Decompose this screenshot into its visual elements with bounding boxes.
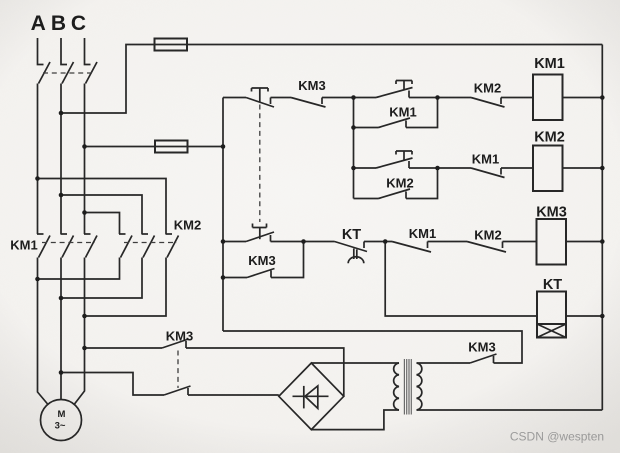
wire rung2 b (501, 167, 533, 169)
wire KM3 contact up to left bus bottom (223, 331, 522, 363)
wire KM1 pole2 to motor (60, 258, 62, 400)
wire KM1 pole1 to motor (38, 258, 49, 405)
wire branch vertical rung1-2 (353, 98, 355, 199)
contact KM2 NC rung3 (467, 242, 506, 253)
wire rung4 end (566, 315, 602, 317)
wire rung2 a (409, 167, 471, 169)
coil KM3 (536, 205, 567, 265)
wire brake upper to bridge right vertex (186, 348, 344, 396)
wire rung3 start (223, 241, 246, 243)
fuse FU1 (155, 39, 188, 51)
wire B to fuse FU1 (61, 45, 155, 114)
transformer T primary winding (394, 363, 399, 410)
wire brake tap upper from C pole (85, 347, 163, 349)
contactor KM2 main pole2 (142, 234, 155, 258)
switch QS pole B (61, 38, 74, 84)
switch QS linkage (43, 72, 95, 74)
coil KM2 (533, 130, 565, 192)
pushbutton SB2 start KM1 (376, 81, 413, 98)
contact KM1 NC rung3 (392, 242, 431, 253)
coil KM1 (533, 56, 565, 120)
wire KM1 pole3 to motor (75, 258, 85, 405)
wire left control bus (222, 98, 224, 332)
wire secondary bottom to right bus (417, 409, 603, 411)
motor M (41, 400, 82, 441)
contact KM1 latch (354, 98, 438, 128)
wire top control line (187, 44, 602, 46)
contactor KM1 main pole1 (37, 234, 50, 258)
KM1 main linkage (42, 242, 95, 244)
contactor KM2 main pole1 (119, 234, 132, 258)
wire KM2 pole1 join (38, 258, 120, 280)
wire rung1 d (501, 97, 533, 99)
wire brake lower to bridge left vertex (188, 394, 279, 396)
wire bridge bottom to transformer (311, 410, 399, 430)
wire rung1 e (563, 97, 603, 99)
wire brake tap lower from B pole (61, 373, 164, 396)
pushbutton SB1 stop pole2 (246, 224, 274, 242)
wire rung4 feed (385, 242, 537, 317)
wire rung1 c (409, 97, 471, 99)
wire KM2 pole3 join (85, 258, 167, 317)
wire rung1 start (223, 97, 246, 99)
wire secondary top to KM3 contact (417, 362, 471, 364)
transformer T secondary winding (417, 363, 422, 410)
wire phase C (84, 84, 86, 235)
wire rung2 c (563, 167, 603, 169)
contactor KM1 main pole2 (61, 234, 74, 258)
wire fuse FU2 to left bus (188, 146, 224, 148)
coil KT (537, 277, 566, 338)
pushbutton SB1 stop pole1 (246, 88, 274, 107)
pushbutton SB3 start KM2 (376, 151, 413, 168)
switch QS pole A (38, 38, 51, 84)
fuse FU2 (155, 141, 188, 153)
contact KM3 brake upper (162, 339, 189, 348)
contact KM3 brake lower (164, 386, 191, 395)
wire C to fuse FU2 (85, 146, 156, 148)
wire rung3 c (428, 241, 468, 243)
wire phase B (60, 84, 62, 235)
wire C to KM2 pole1 (85, 213, 120, 235)
contactor KM2 main pole3 (166, 234, 179, 258)
wire rung1 b (322, 97, 376, 99)
wire rung3 b (364, 241, 392, 243)
wire KM2 pole2 join (61, 258, 142, 299)
switch QS pole C (85, 38, 98, 84)
rectifier bridge VC (279, 363, 344, 430)
contactor KM1 main pole3 (84, 234, 97, 258)
contact KM3 transformer (470, 354, 497, 363)
wire bridge top to transformer (311, 362, 399, 364)
wire right bus (601, 45, 603, 411)
wire A to KM2 pole3 (38, 179, 167, 235)
wire rung3 e (566, 241, 602, 243)
wire B to KM2 pole2 (61, 195, 142, 234)
KM3 brake linkage (177, 351, 179, 389)
contact KM3 latch (223, 242, 304, 278)
SB1 linkage (259, 105, 261, 223)
contact KM2 NC rung1 (471, 98, 505, 108)
KM2 main linkage (124, 242, 177, 244)
wire rung1 a (271, 97, 292, 99)
contact KM1 NC rung2 (471, 168, 505, 178)
contact KM3 NC rung1 (291, 98, 326, 108)
wire rung3 d (503, 241, 537, 243)
wire phase A (37, 84, 39, 235)
transformer T core (404, 359, 411, 415)
wire rung3 a (271, 241, 335, 243)
wire rung2 start (354, 167, 377, 169)
contact KT delayed (335, 242, 368, 264)
contact KM2 latch (354, 168, 438, 199)
